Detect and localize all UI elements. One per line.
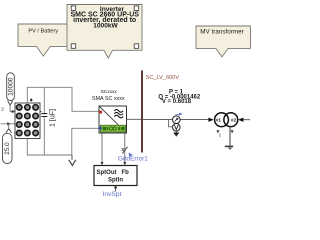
svg-text:1000kW: 1000kW xyxy=(93,23,118,30)
wire transformer to right edge xyxy=(243,119,251,121)
svg-text:GridError1: GridError1 xyxy=(118,156,148,163)
stub on PV right edge xyxy=(40,111,41,113)
ground arrow below voltage measurement xyxy=(175,131,177,132)
winding 1 neutral arrow xyxy=(216,130,219,133)
svg-text:InvSpt: InvSpt xyxy=(103,191,122,198)
svg-text:SC_LV_600V: SC_LV_600V xyxy=(146,75,180,81)
svg-text:SptOut: SptOut xyxy=(97,170,117,176)
arrow into PV array (signal 2) xyxy=(12,110,15,114)
svg-text:Fb: Fb xyxy=(122,170,130,176)
blue signal arrow xyxy=(175,113,180,116)
selection handle bottom-left xyxy=(71,44,76,49)
callout PV / Battery xyxy=(18,24,73,56)
svg-text:PV / Battery: PV / Battery xyxy=(28,28,58,34)
PLL phase measurement device xyxy=(173,116,181,124)
AC tildes xyxy=(114,110,123,113)
svg-text:SptIn: SptIn xyxy=(108,178,123,184)
arrow into transformer right xyxy=(238,118,243,122)
svg-text:V = 0.6018: V = 0.6018 xyxy=(162,99,192,105)
result text P/Q/V xyxy=(158,89,201,105)
AC wire inverter to busbar xyxy=(127,118,142,120)
winding 2 neutral arrow xyxy=(231,130,234,133)
transformer ground symbol xyxy=(225,145,233,147)
callout Inverter SMC SC 2660 UP-US xyxy=(67,5,142,59)
svg-text:#1: #1 xyxy=(216,118,222,124)
svg-text:1 [uF]: 1 [uF] xyxy=(50,109,57,127)
DC- wire inverter to rail xyxy=(27,128,99,155)
ground DC side xyxy=(71,155,73,160)
svg-text:SCxxxx: SCxxxx xyxy=(101,89,118,95)
controller block SptOut/Fb/SptIn xyxy=(94,166,137,186)
AC wire busbar to transformer xyxy=(142,119,209,121)
transformer T1 two-winding xyxy=(215,113,238,127)
wire from 10000 to PV array xyxy=(10,106,12,112)
bundle slash xyxy=(122,147,127,154)
capacitor C1 wire bottom xyxy=(43,117,45,155)
blue arrowhead near GridError1 xyxy=(129,153,133,157)
callout MV transformer xyxy=(196,26,251,57)
svg-text:3: 3 xyxy=(121,147,124,153)
svg-text:10000: 10000 xyxy=(7,77,14,96)
constant block 25.0 xyxy=(3,129,13,164)
wire from 25.0 to PV array xyxy=(1,124,15,129)
control wire 2 (signal bundle) xyxy=(124,133,126,162)
DC+ wire PV top to inverter xyxy=(27,87,99,111)
arrow into transformer left xyxy=(208,118,213,122)
svg-text:MV transformer: MV transformer xyxy=(200,29,243,36)
plus polarity marker xyxy=(30,98,33,102)
green control strip xyxy=(100,125,125,132)
blue DC- terminal xyxy=(99,127,102,130)
arrow InvSpt into controller xyxy=(115,188,117,191)
busbar SC_LV_600V xyxy=(141,71,143,153)
selection handle top-left xyxy=(71,6,76,10)
svg-text:SMA SC xxxx: SMA SC xxxx xyxy=(92,96,125,102)
svg-text:2: 2 xyxy=(1,107,4,112)
svg-text:25.0: 25.0 xyxy=(4,142,11,155)
inverter U1 (PWM converter) xyxy=(99,106,127,133)
capacitor C1 wire top xyxy=(43,87,45,113)
transformer ground wire xyxy=(229,127,231,146)
measurement hook wire xyxy=(169,120,173,127)
svg-text:#2: #2 xyxy=(231,118,237,124)
control wire 1 inverter to controller xyxy=(101,133,103,162)
selection handle bottom-right xyxy=(134,44,139,49)
capacitor C1 plates xyxy=(41,114,47,117)
PV array module xyxy=(15,103,40,139)
selection handle top-right xyxy=(134,6,139,10)
constant block 10000 xyxy=(7,73,15,105)
red DC+ terminal xyxy=(99,111,102,114)
voltage measurement device xyxy=(173,124,181,132)
arrow on signal 1 wire xyxy=(7,122,10,125)
